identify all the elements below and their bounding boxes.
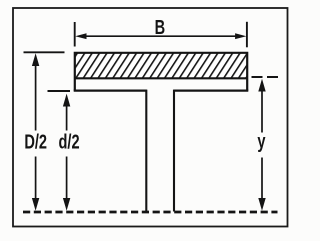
web bbox=[146, 90, 174, 212]
svg-text:B: B bbox=[155, 16, 166, 39]
flange outline bbox=[74, 53, 249, 91]
dimension y bbox=[252, 77, 280, 211]
svg-text:d/2: d/2 bbox=[59, 130, 80, 153]
svg-text:y: y bbox=[257, 130, 265, 153]
dimension B bbox=[75, 22, 247, 48]
svg-text:D/2: D/2 bbox=[24, 130, 47, 153]
centerline dashed bottom bbox=[23, 211, 278, 214]
flange hatched area bbox=[75, 53, 248, 79]
dimension D/2 bbox=[24, 52, 65, 211]
dimension d/2 bbox=[48, 91, 71, 211]
